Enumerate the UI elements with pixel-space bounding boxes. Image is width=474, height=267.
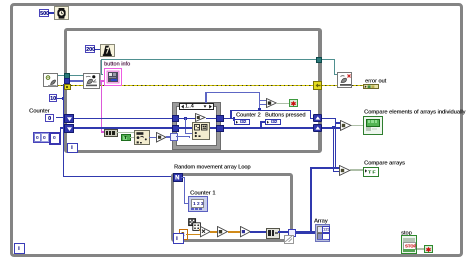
wire: increment branch up from case	[205, 92, 206, 105]
wire: case interior bottom thin	[176, 136, 190, 137]
node: round to nearest	[217, 226, 228, 237]
constant 10	[49, 94, 57, 102]
indicator button info (cluster)	[104, 68, 122, 87]
wire: teal acquire up jog	[99, 74, 103, 75]
junction dot buttons pressed	[260, 126, 263, 129]
for loop resize grip	[284, 235, 294, 243]
tunnel: blue (left border)	[64, 78, 70, 84]
shift register left 2 (down arrow)	[64, 124, 74, 134]
wire: triangle out to case	[166, 136, 173, 137]
indicator compare elements (boolean array)	[363, 116, 383, 134]
wire: SR2 array across loop (thick)	[74, 127, 172, 129]
Wait Until Next ms Multiple (metronome)	[100, 44, 115, 58]
wire: SR1 out to v1	[321, 118, 336, 119]
wire: Counter 0 to shift register	[56, 117, 65, 118]
wire: teal device id, init to tunnel	[57, 75, 64, 76]
constant 500	[39, 9, 50, 17]
wire: SR2 array case to right SR (thick)	[221, 127, 313, 129]
wire: N branch to Counter 1	[181, 177, 185, 178]
wire: v2 vertical	[333, 127, 335, 172]
wire: pink vertical down	[101, 80, 102, 131]
wire: for loop tunnel to Array indicator (thick)	[295, 231, 316, 233]
wire: junction up to blue tunnel	[63, 84, 64, 99]
label Counter 1	[190, 190, 215, 196]
wire: blue tunnel to acquire second input	[70, 80, 84, 81]
Acquire Input Data vi icon	[83, 73, 101, 90]
tunnel: error yellow (left border)	[64, 84, 71, 91]
inner while loop	[64, 28, 322, 153]
array constant [0,0]	[33, 132, 51, 143]
indicator compare arrays TF	[363, 167, 379, 177]
conditional terminal (stop if true)	[424, 245, 433, 253]
node: increment in case	[195, 113, 206, 122]
node: build array	[266, 228, 280, 239]
wire: detour up	[230, 110, 231, 118]
wire: error close vi to error out	[352, 85, 364, 87]
wire: equal2 out	[350, 169, 364, 170]
node: Replace Array Subset	[192, 122, 210, 140]
wire: teal outside loop right	[321, 59, 335, 60]
wire: jog up to Buttons pressed terminal	[260, 121, 261, 127]
wire: error tunnel to acquire	[71, 85, 84, 87]
wire: case interior incr out	[206, 118, 217, 119]
wire: teal vertical down to close vi	[334, 59, 335, 75]
wire: teal vertical x101.8	[101, 59, 102, 75]
wire: v2 corner to equal2 bottom	[333, 171, 340, 173]
label Counter	[29, 108, 50, 114]
node: Equal? before stop	[266, 98, 277, 108]
node: multiply	[200, 226, 211, 237]
label error out	[365, 78, 386, 84]
tunnel: error yellow (right border)	[313, 81, 322, 89]
junction dot array branch	[332, 126, 335, 129]
label Random movement array Loop	[174, 164, 251, 170]
wire: v1 corner to equal2 top	[335, 167, 340, 168]
wire: cluster-to-array out to search	[117, 132, 135, 133]
wire: array constant elbow up	[60, 127, 62, 138]
case tunnel left bottom	[172, 125, 179, 132]
wire: error acquire to right tunnel	[99, 85, 313, 87]
case structure	[173, 103, 220, 149]
indicator error out	[363, 84, 379, 89]
Close Input Device vi icon	[337, 72, 352, 88]
wire: SR2 out to equal1 bottom (thick)	[321, 127, 341, 129]
constant TRUE	[121, 134, 131, 141]
wire: round to convert	[228, 231, 240, 232]
node: increment triangle	[156, 132, 167, 143]
label Array	[314, 218, 328, 224]
indicator Array	[315, 224, 331, 243]
node: cluster to boolean array	[104, 129, 118, 137]
control stop (boolean)	[401, 235, 417, 254]
node: to long integer	[240, 226, 251, 237]
label Counter 2	[236, 112, 261, 118]
random number dice icon	[188, 218, 201, 231]
wire: pink into cluster-to-array	[101, 131, 105, 133]
control Counter 0	[45, 114, 54, 121]
wire: into left shift register 2	[60, 127, 65, 129]
for loop (Random movement array Loop)	[171, 173, 293, 242]
wire: dice to multiply	[199, 229, 201, 230]
label Compare elements of arrays individually	[364, 109, 465, 115]
wire: equal feed down	[259, 92, 260, 111]
Search 1D Array node	[134, 130, 150, 145]
frame edge left (thin box around button info region)	[100, 60, 101, 85]
case tunnel left top	[172, 115, 179, 122]
wire: junction down to for loop N	[63, 98, 64, 177]
shift register right 1 (up arrow)	[313, 114, 322, 122]
tunnel: for loop array out	[288, 229, 296, 237]
iteration terminal i (inner loop)	[67, 143, 78, 154]
wire: 10 to junction	[57, 98, 63, 99]
wire: array constant to elbow	[58, 136, 61, 138]
wire: 200 to metronome	[95, 49, 100, 50]
Wait (ms) function	[54, 6, 69, 21]
wire: teal into close vi	[334, 74, 338, 75]
wire: TRUE to search	[130, 137, 135, 138]
junction dot for loop array	[310, 231, 313, 234]
wire: equal stub 2	[259, 104, 267, 105]
wire: 500 to Wait ms	[49, 12, 55, 13]
iteration terminal i (outer loop)	[14, 243, 25, 254]
wire: detour top run	[230, 110, 311, 111]
shift register left 1 (down arrow)	[64, 114, 74, 124]
case tunnel output light	[170, 133, 178, 141]
iteration terminal i (for loop)	[173, 233, 184, 244]
label Buttons pressed	[265, 112, 305, 118]
tunnel: teal out (right border top)	[316, 57, 323, 63]
constant 200	[85, 45, 95, 53]
wire: equal stub 1	[259, 100, 267, 101]
wire: equal feed top run	[205, 92, 259, 93]
wire: error dashes init to tunnel	[57, 85, 65, 87]
wire: SR1 scalar across loop	[74, 118, 172, 119]
array element constant 0	[49, 132, 60, 145]
wire: drop to Counter 2 terminal	[233, 118, 234, 122]
wire: teal top run inside loop	[101, 59, 316, 60]
wire: search out	[149, 137, 156, 138]
wire: for loop array up to equal2	[310, 167, 335, 169]
tunnel: teal device id (left border)	[64, 73, 70, 79]
junction dot 10-wire	[62, 97, 65, 100]
junction dot case	[184, 117, 187, 120]
wire: error tunnel to close vi	[321, 85, 338, 87]
label button info	[104, 61, 130, 67]
case tunnel right top	[216, 115, 224, 123]
wire: into right SR1	[310, 118, 313, 119]
wire: v1 stub to equal1 top	[335, 122, 341, 123]
terminal Buttons pressed I32	[265, 119, 281, 125]
wire: equal1 out	[351, 125, 364, 126]
wire: case interior array out	[208, 127, 216, 129]
node: Equal? arrays elementwise	[340, 120, 352, 131]
Initialize Mouse vi icon	[43, 73, 58, 88]
wire: SR1 case to corner	[221, 118, 235, 119]
terminal Counter 2 I32	[234, 119, 250, 125]
wire: pink cluster acquire to button info	[99, 80, 104, 81]
constant 3 (orange)	[179, 229, 188, 239]
label stop	[401, 230, 412, 236]
wire: stop control to conditional terminal	[416, 248, 424, 249]
node: Equal? arrays aggregate	[339, 165, 351, 176]
wire: teal tunnel to acquire icon	[70, 75, 84, 76]
wire: 3 to multiply	[186, 234, 200, 235]
wire: multiply to round	[210, 231, 217, 232]
for loop count terminal N	[173, 173, 183, 183]
wire: equal out to stop fn	[277, 103, 289, 104]
wire: v1 vertical	[335, 118, 336, 169]
wire: build array to tunnel	[278, 231, 289, 233]
Stop function (red)	[289, 99, 298, 107]
wire: convert to build array	[250, 231, 266, 232]
case selector label 1..4	[179, 103, 214, 110]
case tunnel right bottom	[216, 125, 224, 133]
junction dot counter2	[233, 117, 236, 120]
wire: case drop to replace node	[185, 118, 186, 134]
shift register right 2 (up arrow)	[313, 124, 322, 132]
label Compare arrays	[364, 160, 405, 166]
indicator Counter 1	[188, 196, 208, 212]
wire: detour down	[310, 110, 311, 118]
wire: case interior array	[176, 127, 192, 129]
wire: to for loop N tunnel	[63, 176, 172, 177]
wire: case interior scalar	[176, 118, 196, 119]
junction dot equal feed	[258, 108, 261, 111]
